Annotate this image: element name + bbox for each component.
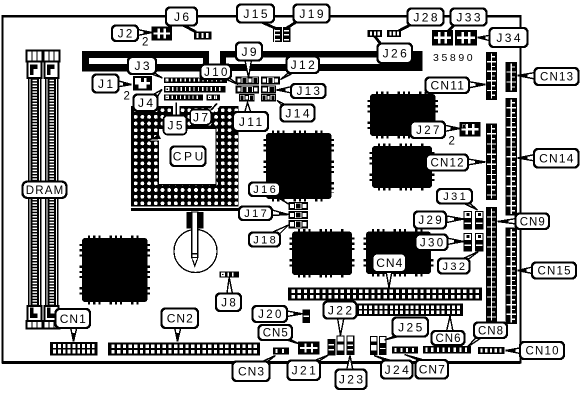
connector J27 header (461, 123, 480, 136)
leader for CN8 (468, 338, 482, 347)
connector CN8 header (423, 346, 471, 354)
svg-text:J18: J18 (253, 234, 278, 246)
connector J33 header (433, 31, 452, 45)
label J3 (128, 57, 156, 74)
connector J21 jumper (328, 340, 335, 356)
leader for J21 (312, 355, 329, 362)
connector CN14 vertical header (506, 98, 518, 216)
svg-text:J23: J23 (339, 373, 366, 387)
svg-text:CN9: CN9 (520, 216, 546, 228)
svg-text:J26: J26 (383, 47, 410, 61)
label J19 (294, 5, 330, 23)
svg-text:CN14: CN14 (539, 152, 574, 166)
svg-text:J3: J3 (134, 59, 151, 73)
connector J30 jumper (464, 234, 472, 252)
label J16 (249, 183, 280, 197)
leader for J34 (478, 35, 492, 41)
connector J32 jumper (476, 234, 484, 252)
svg-text:35890: 35890 (433, 52, 475, 64)
label J18 (249, 233, 280, 247)
connector J31 jumper (476, 212, 484, 230)
label CN11 (426, 78, 470, 94)
connector J17 header (289, 212, 308, 219)
label CN7 (416, 360, 449, 379)
connector J19 header (283, 27, 290, 42)
leader for J10 (224, 79, 238, 85)
leader for J19 (286, 22, 297, 29)
leader for J11 (245, 103, 252, 114)
label J25 (393, 318, 429, 337)
label CN8 (474, 323, 507, 339)
label CN6 (432, 331, 465, 345)
connector CN13 vertical header (506, 62, 518, 92)
label J33 (451, 9, 487, 26)
svg-text:J17: J17 (244, 208, 269, 220)
svg-text:CN3: CN3 (238, 365, 265, 379)
label J26 (378, 44, 413, 64)
svg-text:J34: J34 (496, 31, 523, 45)
leader for J3 (146, 72, 163, 78)
svg-text:J22: J22 (328, 303, 355, 317)
label CPU (171, 147, 206, 167)
label CN9 (516, 214, 550, 230)
svg-text:J29: J29 (418, 215, 444, 227)
CPU PGA socket (131, 106, 239, 207)
leader for J33 (447, 25, 455, 33)
svg-text:CN11: CN11 (431, 79, 466, 93)
leader for CN11 (468, 82, 486, 89)
leader for J30 (447, 238, 464, 245)
leader for J9 (245, 60, 252, 78)
label J17 (239, 207, 272, 221)
label CN13 (535, 68, 579, 85)
connector CN12 vertical header (486, 124, 497, 201)
connector CN10 header (478, 347, 505, 354)
leader for J31 (462, 203, 478, 211)
label J27 (411, 122, 446, 139)
svg-text:CN5: CN5 (263, 328, 289, 340)
svg-text:CN13: CN13 (540, 72, 574, 84)
socket lever bar (131, 208, 241, 211)
connector J22 jumper A (337, 336, 344, 355)
chip U3 (CN4 label) (365, 230, 433, 275)
label J21 (288, 361, 321, 381)
bus slot bar left segment (82, 51, 209, 72)
label J6 (166, 8, 197, 26)
leader for CN14 (518, 155, 536, 162)
label J31 (437, 189, 472, 204)
leader for J22 (338, 318, 345, 336)
label J22 (324, 302, 357, 319)
leader for J15 (259, 21, 276, 29)
jumper row 3 strip (164, 95, 203, 101)
label J4 (134, 95, 158, 112)
jumper row 3 block J7 (207, 95, 221, 101)
connector J26 header (368, 30, 383, 37)
svg-text:J11: J11 (239, 115, 265, 129)
jumper row 2 block (236, 86, 259, 93)
connector CN6 header (356, 304, 464, 317)
connector J24 jumper B (380, 337, 387, 355)
label J8 (216, 294, 241, 312)
svg-text:2: 2 (124, 91, 130, 103)
label CN2 (162, 309, 199, 329)
leader for CN4 (386, 271, 392, 288)
leader for J4 (150, 90, 162, 100)
leader for J18 (274, 225, 289, 235)
svg-text:J27: J27 (416, 125, 442, 137)
label CN15 (532, 263, 576, 279)
jumper row 1 strip (164, 78, 227, 83)
connector J2 header (153, 28, 172, 40)
connector J1 header (134, 77, 151, 90)
svg-text:DRAM: DRAM (26, 185, 65, 197)
svg-text:J24: J24 (385, 363, 412, 377)
svg-text:CN6: CN6 (435, 333, 461, 345)
leader for J16 (272, 194, 289, 204)
connector J6 header (194, 32, 212, 40)
connector J15 header (273, 27, 282, 42)
leader for CN13 (518, 73, 536, 80)
svg-text:2: 2 (142, 37, 148, 49)
label J30 (416, 235, 448, 251)
connector CN3 header (273, 348, 289, 355)
leader for J14 (277, 101, 289, 107)
leader for J32 (461, 252, 479, 260)
leader for J17 (272, 210, 289, 216)
svg-text:J2: J2 (118, 28, 135, 40)
leader for J25 (385, 336, 403, 341)
battery with key (174, 212, 217, 273)
DRAM SIMM socket 2 (44, 51, 60, 329)
connector J28 header (387, 30, 401, 37)
DRAM SIMM socket 1 (27, 51, 43, 329)
svg-text:CN15: CN15 (537, 266, 571, 278)
label J20 (253, 306, 288, 322)
svg-text:J28: J28 (413, 10, 440, 24)
chip U4 lower left (81, 237, 149, 304)
connector J18 header (289, 221, 308, 229)
leader for J24 (374, 356, 395, 362)
jumper row 2 strip (164, 86, 226, 92)
leader for CN7 (405, 355, 428, 362)
label J12 (287, 57, 320, 74)
leader for J23 (347, 356, 354, 371)
jumper row 3 block J11 (240, 95, 255, 101)
leader for CN15 (518, 267, 533, 274)
leader for J7 (209, 103, 221, 113)
connector CN5 header (299, 343, 319, 354)
connector J24 jumper A (371, 337, 378, 355)
svg-text:J12: J12 (291, 58, 318, 72)
connector J16 header (289, 203, 308, 210)
label J32 (438, 259, 470, 274)
svg-text:J30: J30 (420, 237, 446, 249)
svg-text:J32: J32 (442, 261, 467, 273)
label J13 (291, 84, 326, 98)
svg-text:J4: J4 (138, 96, 155, 110)
svg-text:J31: J31 (443, 191, 468, 203)
label J29 (414, 212, 446, 229)
svg-text:J7: J7 (193, 110, 210, 124)
connector J29 jumper (464, 212, 472, 230)
jumper row 1 block J12 (262, 77, 280, 84)
leader for J29 (447, 216, 464, 223)
svg-text:CN7: CN7 (419, 363, 446, 377)
label J14 (281, 105, 315, 122)
svg-text:J1: J1 (98, 77, 115, 91)
jumper row 1 block J9 (236, 77, 259, 84)
leader for J8 (227, 278, 233, 295)
connector CN4 header (288, 288, 482, 301)
leader for J1 (117, 81, 132, 88)
connector CN1 header (50, 342, 98, 356)
leader for CN2 (175, 327, 182, 342)
label J34 (490, 28, 528, 47)
leader for J5 (173, 103, 179, 117)
leader for J26 (375, 36, 383, 46)
label DRAM (23, 182, 67, 199)
chip U1 right of CPU (265, 132, 333, 201)
leader for CN6 (447, 316, 454, 332)
svg-text:CN2: CN2 (167, 312, 194, 326)
label J24 (381, 361, 413, 379)
leader for CN9 (498, 219, 517, 225)
label J7 (190, 110, 211, 125)
svg-text:CN8: CN8 (478, 325, 504, 337)
svg-text:2: 2 (449, 136, 455, 148)
board outline (3, 16, 521, 362)
svg-text:CPU: CPU (173, 150, 206, 164)
leader for CN3 (260, 356, 276, 363)
connector J20 header (303, 310, 310, 323)
connector J22 jumper B (347, 336, 354, 355)
label CN12 (426, 155, 468, 171)
leader for CN10 (506, 348, 523, 355)
jumper row 2 block J13 (262, 86, 276, 93)
leader for J13 (277, 87, 293, 94)
chip U5 (J27 area) (369, 93, 437, 138)
svg-text:J10: J10 (204, 67, 230, 79)
svg-text:J33: J33 (456, 10, 483, 24)
svg-text:CN10: CN10 (525, 346, 559, 358)
svg-text:J9: J9 (241, 45, 258, 59)
connector J34 header (456, 31, 476, 45)
label J10 (201, 65, 232, 80)
chip U6 (CN12 area) (371, 145, 434, 190)
svg-text:J6: J6 (174, 10, 191, 24)
leader for J2 (138, 30, 153, 36)
label J28 (408, 9, 444, 26)
label CN3 (233, 362, 270, 382)
label J1 (93, 75, 119, 93)
label J11 (233, 112, 268, 131)
connector CN2 header (108, 343, 260, 356)
label J2 (112, 26, 138, 42)
leader for J20 (287, 311, 303, 317)
label CN10 (520, 342, 564, 359)
svg-text:J19: J19 (299, 7, 326, 21)
label CN14 (534, 149, 579, 168)
label J5 (164, 116, 187, 135)
leader for CN12 (468, 159, 486, 165)
connector CN7 header (392, 347, 418, 354)
leader for J27 (444, 125, 460, 132)
svg-text:J21: J21 (292, 364, 319, 378)
leader for CN5 (285, 340, 300, 345)
svg-text:J20: J20 (258, 309, 284, 321)
label J23 (336, 370, 367, 390)
connector CN9 vertical header (486, 207, 497, 322)
svg-text:J5: J5 (167, 118, 184, 132)
svg-text:CN1: CN1 (60, 312, 87, 326)
connector J8 header (220, 272, 240, 278)
svg-text:J15: J15 (243, 7, 270, 21)
jumper row 3 block J14 (262, 95, 276, 101)
leader for CN1 (71, 327, 78, 342)
svg-text:CN12: CN12 (430, 158, 464, 170)
leader for J6 (181, 24, 196, 32)
leader for J28 (399, 24, 413, 31)
label J15 (237, 5, 274, 23)
pin 1 arrow for J5 (150, 133, 162, 141)
label CN4 (373, 254, 407, 273)
svg-text:J13: J13 (297, 86, 323, 98)
svg-text:J16: J16 (253, 184, 278, 196)
label CN1 (56, 309, 91, 328)
connector CN15 vertical header (506, 228, 518, 325)
label CN5 (259, 325, 293, 340)
leader for J12 (281, 72, 297, 80)
bus slot bar right segment (220, 51, 423, 71)
svg-text:J14: J14 (285, 106, 312, 120)
svg-text:CN4: CN4 (376, 256, 403, 270)
svg-text:J8: J8 (221, 297, 238, 309)
chip U2 (CN4 area left) (291, 230, 354, 276)
label J9 (236, 43, 262, 61)
connector CN11 vertical header (486, 52, 497, 100)
svg-text:J25: J25 (398, 320, 425, 334)
